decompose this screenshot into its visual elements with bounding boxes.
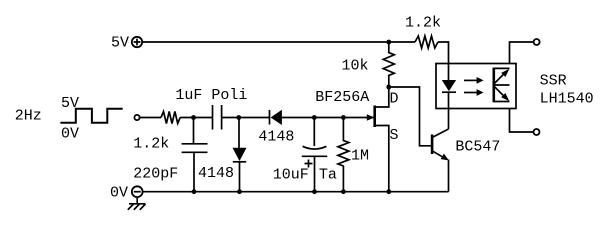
svg-text:BF256A: BF256A xyxy=(315,89,369,106)
junction bottom 10uF xyxy=(312,189,317,194)
SSR output MOSFET pair xyxy=(494,68,510,103)
SSR box xyxy=(436,64,516,109)
svg-text:S: S xyxy=(390,127,399,144)
wire cap 1uF to diode xyxy=(222,117,270,119)
svg-text:0V: 0V xyxy=(61,126,79,143)
light arrow upper xyxy=(464,77,484,84)
svg-text:BC547: BC547 xyxy=(455,139,500,156)
svg-text:220pF: 220pF xyxy=(133,166,178,183)
wire input to 1.2k xyxy=(140,117,161,119)
svg-text:D: D xyxy=(390,91,399,108)
svg-text:1uF Poli: 1uF Poli xyxy=(175,87,247,104)
junction shunt diode xyxy=(236,115,241,120)
resistor 1.2k input xyxy=(161,112,180,124)
svg-text:4148: 4148 xyxy=(258,129,294,146)
svg-text:1.2k: 1.2k xyxy=(133,136,169,153)
resistor 10k xyxy=(383,42,394,87)
light arrow lower xyxy=(464,89,484,96)
diode D1 4148 series xyxy=(270,110,282,125)
svg-text:1M: 1M xyxy=(351,148,369,165)
JFET U2 BF256A xyxy=(367,87,389,192)
junction top rail / 10k xyxy=(386,40,391,45)
junction bottom shunt diode xyxy=(237,189,242,194)
transistor Q1 BC547 xyxy=(432,129,449,160)
resistor R3 1M xyxy=(338,118,349,192)
pin SSR output top xyxy=(510,39,540,64)
resistor 1.2k top xyxy=(415,36,438,48)
LED D3 SSR input xyxy=(442,80,456,92)
wire BC547 emitter to 0V rail xyxy=(448,160,450,192)
capacitor C2 220pF xyxy=(182,118,208,192)
junction 1M xyxy=(341,115,346,120)
svg-text:1.2k: 1.2k xyxy=(405,15,441,32)
wire drain junction to BC547 base xyxy=(389,87,431,146)
wire 1.2k to cap 1uF xyxy=(180,117,212,119)
wire bottom rail xyxy=(143,191,449,193)
ground xyxy=(128,197,146,210)
terminal 0V xyxy=(132,186,143,197)
wire 1.2k to SSR LED xyxy=(438,42,449,81)
svg-text:2Hz: 2Hz xyxy=(15,108,42,125)
wire diode to gate xyxy=(282,117,374,119)
svg-text:0V: 0V xyxy=(110,185,128,202)
junction bottom 220pF xyxy=(192,189,197,194)
terminal input xyxy=(134,115,139,120)
terminal 5V supply xyxy=(132,37,142,47)
junction drain / 10k / base xyxy=(386,85,391,90)
svg-text:SSR: SSR xyxy=(540,73,567,90)
junction 10uF xyxy=(312,115,317,120)
junction 220pF xyxy=(191,115,196,120)
svg-text:4148: 4148 xyxy=(198,165,234,182)
wire LED cathode to BC547 collector xyxy=(448,92,450,129)
svg-text:LH1540: LH1540 xyxy=(540,91,594,108)
svg-text:5V: 5V xyxy=(111,35,129,52)
wire top rail xyxy=(142,41,415,43)
svg-text:5V: 5V xyxy=(61,95,79,112)
capacitor C3 10uF Ta xyxy=(302,118,327,192)
svg-text:10uF: 10uF xyxy=(273,167,309,184)
svg-text:10k: 10k xyxy=(342,58,369,75)
junction bottom JFET source xyxy=(386,189,391,194)
junction bottom 1M xyxy=(341,189,346,194)
svg-text:Ta: Ta xyxy=(319,167,337,184)
capacitor C1 1uF Poli xyxy=(213,105,222,130)
square wave annotation xyxy=(60,109,122,123)
pin SSR output bottom xyxy=(510,109,540,136)
diode D2 4148 shunt xyxy=(233,118,247,192)
